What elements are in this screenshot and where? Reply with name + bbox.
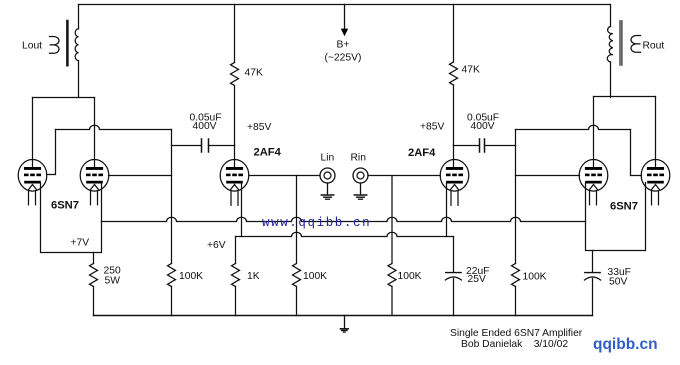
svg-text:400V: 400V bbox=[471, 121, 495, 132]
wire left 47K to plate node bbox=[234, 86, 236, 146]
wire Lout top lead bbox=[78, 5, 80, 29]
wire right plate bus bbox=[594, 96, 656, 98]
wire Lin jack to left 2AF4 grid bbox=[249, 175, 320, 177]
resistor 100K right input bbox=[388, 264, 396, 316]
svg-text:47K: 47K bbox=[462, 65, 480, 76]
wire right input leak vertical bbox=[391, 176, 393, 264]
cathode box right 6SN7 bbox=[586, 183, 646, 251]
wire left 2AF4 cathode lead bbox=[241, 183, 243, 237]
svg-text:+85V: +85V bbox=[420, 121, 444, 132]
capacitor 0.05uF left bbox=[202, 139, 209, 152]
wire B+ top rail bbox=[79, 4, 611, 6]
wire Lout bottom lead bbox=[78, 61, 80, 98]
svg-text:qqibb.cn: qqibb.cn bbox=[593, 336, 658, 353]
wire tube2 grid tap bbox=[109, 175, 172, 177]
svg-text:+85V: +85V bbox=[247, 122, 271, 133]
wire rail to left 47K bbox=[234, 5, 236, 63]
wire Rin jack to right 2AF4 grid bbox=[368, 175, 440, 177]
resistor 47K right bbox=[450, 62, 458, 85]
wire left cap to plate node bbox=[209, 145, 235, 147]
wire ground rail bbox=[94, 315, 593, 317]
cathode box left 6SN7 bbox=[41, 183, 102, 252]
resistor 100K right grid-leak bbox=[512, 264, 520, 316]
svg-text:47K: 47K bbox=[245, 67, 263, 78]
resistor 100K left grid-leak bbox=[168, 264, 176, 316]
svg-text:+6V: +6V bbox=[207, 240, 226, 251]
svg-text:B+: B+ bbox=[337, 40, 350, 51]
resistor 250 5W bbox=[90, 253, 98, 316]
svg-text:25V: 25V bbox=[468, 274, 486, 285]
resistor 47K left bbox=[231, 63, 239, 86]
wire right 47K to plate node bbox=[453, 85, 455, 146]
wire tube2 plate lead bbox=[94, 98, 96, 168]
wire tube1 grid drop bbox=[47, 130, 56, 175]
svg-text:100K: 100K bbox=[179, 271, 203, 282]
wire Rout bottom lead bbox=[610, 62, 612, 98]
wire right grid link with hop over tube3 plate lead bbox=[516, 125, 631, 129]
driver tube 2AF4 right bbox=[440, 160, 469, 206]
svg-text:Lin: Lin bbox=[321, 152, 335, 163]
svg-text:Rout: Rout bbox=[643, 40, 665, 51]
wire right cap to grid node bbox=[485, 145, 516, 147]
jack Rin bbox=[353, 168, 368, 199]
svg-text:100K: 100K bbox=[398, 271, 422, 282]
svg-text:Lout: Lout bbox=[22, 41, 42, 52]
wire cathode bus with hops bbox=[102, 217, 586, 221]
svg-text:100K: 100K bbox=[523, 272, 547, 283]
wire tube1 plate lead bbox=[32, 98, 34, 168]
wire 1K top lead bbox=[235, 237, 237, 264]
wire left grid link with hop over tube2 plate lead bbox=[56, 125, 172, 129]
wire left input leak vertical bbox=[296, 176, 298, 264]
tube 6SN7 left triode 1 bbox=[18, 160, 47, 205]
wire right 2AF4 plate lead bbox=[453, 146, 455, 168]
tube 6SN7 left triode 2 bbox=[80, 160, 109, 205]
wire tube4 plate lead bbox=[655, 97, 657, 168]
svg-text:6SN7: 6SN7 bbox=[610, 201, 638, 213]
wire left plate bus bbox=[33, 97, 95, 99]
svg-text:6SN7: 6SN7 bbox=[51, 200, 79, 212]
resistor 1K bbox=[232, 264, 240, 316]
wire right grid-leak vertical bbox=[515, 130, 517, 264]
wire left grid-leak vertical bbox=[171, 130, 173, 264]
svg-text:2AF4: 2AF4 bbox=[254, 147, 282, 159]
wire right 2AF4 cathode lead bbox=[446, 183, 448, 237]
wire left cap to grid node bbox=[172, 145, 202, 147]
driver tube 2AF4 left bbox=[220, 160, 249, 206]
svg-text:2AF4: 2AF4 bbox=[408, 147, 436, 159]
B+ supply arrow bbox=[341, 5, 348, 37]
svg-text:50V: 50V bbox=[609, 277, 627, 288]
wire tube3 plate lead bbox=[593, 97, 595, 168]
wire right plate node to cap bbox=[454, 145, 480, 147]
wire tube3 grid tap bbox=[516, 175, 580, 177]
svg-text:+7V: +7V bbox=[71, 238, 90, 249]
tube 6SN7 right triode 2 bbox=[641, 160, 670, 205]
tube 6SN7 right triode 1 bbox=[579, 160, 608, 205]
wire left 2AF4 plate lead bbox=[234, 146, 236, 168]
wire Rout top lead bbox=[610, 5, 612, 27]
wire tube4 grid drop bbox=[631, 130, 642, 176]
capacitor 33uF bbox=[585, 251, 601, 316]
svg-text:100K: 100K bbox=[303, 271, 327, 282]
capacitor 22uF bbox=[445, 237, 461, 316]
svg-text:www.qqibb.cn: www.qqibb.cn bbox=[262, 216, 371, 230]
ground bbox=[340, 316, 348, 333]
transformer Lout bbox=[50, 21, 79, 65]
svg-text:400V: 400V bbox=[193, 121, 217, 132]
svg-text:Single Ended 6SN7 Amplifier: Single Ended 6SN7 Amplifier bbox=[450, 328, 583, 339]
transformer Rout bbox=[607, 21, 640, 65]
svg-text:Rin: Rin bbox=[351, 152, 367, 163]
svg-text:1K: 1K bbox=[247, 271, 260, 282]
jack Lin bbox=[320, 168, 335, 199]
resistor 100K left input bbox=[293, 264, 301, 316]
node +6V line with hops bbox=[236, 232, 454, 236]
capacitor 0.05uF right bbox=[480, 139, 485, 152]
svg-text:(~225V): (~225V) bbox=[325, 53, 362, 64]
svg-text:5W: 5W bbox=[105, 276, 121, 287]
svg-text:Bob Danielak 3/10/02: Bob Danielak 3/10/02 bbox=[461, 339, 568, 350]
wire rail to right 47K bbox=[453, 5, 455, 63]
